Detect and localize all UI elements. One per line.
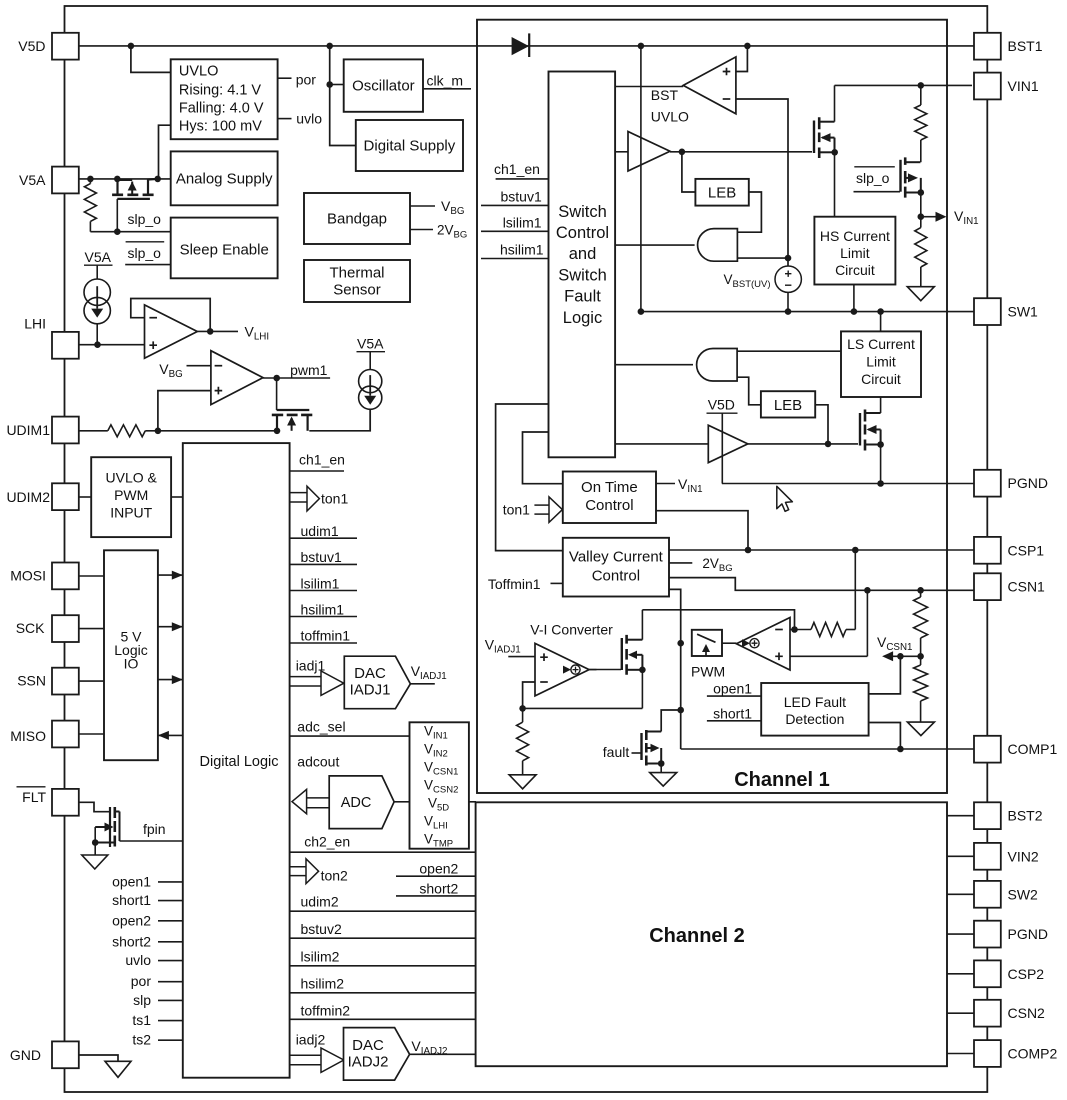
junction CSP1-sense bbox=[852, 547, 859, 554]
svg-text:Sleep Enable: Sleep Enable bbox=[180, 242, 269, 259]
wire 2V_BG tick bbox=[410, 229, 433, 231]
svg-text:Analog Supply: Analog Supply bbox=[176, 171, 273, 188]
wire on-time VIN1 tick bbox=[656, 483, 675, 485]
pin GND bbox=[52, 1041, 79, 1068]
svg-text:Thermal: Thermal bbox=[329, 265, 384, 282]
transistor LS switch M6 bbox=[859, 413, 861, 446]
resistor UDIM1 R1 bbox=[108, 425, 146, 437]
svg-text:LEB: LEB bbox=[708, 185, 736, 202]
pin PGND ch2 bbox=[974, 921, 1001, 948]
transistor V-I M7 bbox=[621, 638, 623, 670]
op-amp PWM comparator U2 bbox=[211, 351, 263, 405]
svg-text:Circuit: Circuit bbox=[835, 262, 875, 278]
wire hsilim2 out bbox=[290, 992, 476, 994]
wire lsilim1 out bbox=[290, 590, 357, 592]
wire short1 status bbox=[158, 900, 183, 902]
svg-text:por: por bbox=[131, 973, 152, 989]
transistor fault M8 bbox=[632, 752, 642, 754]
wire mux to channel bbox=[469, 801, 476, 803]
wire minus feedback bbox=[523, 682, 535, 708]
svg-text:PWM: PWM bbox=[691, 664, 725, 680]
wire bstuv1 switch input bbox=[481, 204, 549, 206]
wire V5D to UVLO bbox=[131, 46, 171, 73]
current source I_UDIM bbox=[369, 352, 371, 370]
svg-text:Digital Logic: Digital Logic bbox=[200, 754, 279, 770]
wire V5D rail bbox=[79, 45, 975, 47]
wire pwm to comparator bbox=[722, 642, 736, 644]
svg-text:ADC: ADC bbox=[341, 795, 372, 811]
wire por status bbox=[158, 981, 183, 983]
svg-text:uvlo: uvlo bbox=[296, 111, 322, 127]
wire uvlo status bbox=[158, 960, 183, 962]
wire open1 status bbox=[158, 881, 183, 883]
pin LHI bbox=[52, 332, 79, 359]
junction LS gate node bbox=[825, 441, 832, 448]
resistor V-I bbox=[522, 708, 524, 722]
svg-text:open1: open1 bbox=[713, 681, 752, 697]
wire hsilim1 switch input bbox=[481, 258, 549, 260]
resistor CSN1 lower bbox=[920, 656, 922, 665]
pin SCK bbox=[52, 615, 79, 642]
svg-text:open2: open2 bbox=[419, 861, 458, 877]
resistor VIN1 upper bbox=[920, 85, 922, 105]
wire channel2 pin stub bbox=[947, 973, 974, 975]
wire switch to on-time bbox=[523, 432, 563, 484]
svg-text:DAC: DAC bbox=[352, 1037, 384, 1054]
svg-text:MOSI: MOSI bbox=[10, 568, 46, 584]
DAC IADJ1 block bbox=[344, 656, 410, 709]
junction V_IN1 tap bbox=[918, 213, 925, 220]
svg-text:LHI: LHI bbox=[24, 316, 46, 332]
svg-text:UVLO: UVLO bbox=[179, 64, 219, 80]
svg-text:SW2: SW2 bbox=[1008, 886, 1039, 902]
svg-text:BST2: BST2 bbox=[1008, 808, 1043, 824]
summing symbol V-I bbox=[589, 669, 596, 671]
junction VIN1 divider bbox=[918, 82, 925, 89]
Switch Control block bbox=[549, 72, 616, 458]
wire SSN input bbox=[77, 680, 104, 682]
svg-text:Oscillator: Oscillator bbox=[352, 78, 415, 95]
wire switch to LS driver bbox=[615, 443, 708, 445]
wire uvlo output bbox=[278, 118, 292, 120]
junction SW1-rail bbox=[638, 308, 645, 315]
svg-text:PWM: PWM bbox=[114, 487, 148, 503]
wire ch1_en out bbox=[290, 470, 344, 472]
svg-text:por: por bbox=[296, 72, 317, 88]
svg-text:bstuv1: bstuv1 bbox=[301, 549, 342, 565]
ground fault bbox=[650, 773, 677, 787]
wire V5D to oscillator and digital supply bbox=[330, 46, 356, 146]
junction valley minus bbox=[791, 626, 798, 633]
Channel 1 block bbox=[477, 20, 947, 793]
junction PGND-LS source bbox=[877, 480, 884, 487]
wire COMP1 rail bbox=[681, 748, 974, 750]
junction V5A-resistor bbox=[87, 176, 94, 183]
wire V-I drain to valley minus bbox=[642, 610, 794, 630]
arrow ton2 out bbox=[290, 866, 306, 868]
pin PGND ch1 bbox=[974, 470, 1001, 497]
ground CSN1 divider bbox=[907, 722, 934, 736]
svg-text:PGND: PGND bbox=[1008, 475, 1048, 491]
wire LED fault sense input bbox=[869, 656, 901, 694]
wire V_IADJ1 to plus bbox=[508, 656, 535, 658]
wire sck to digital logic bbox=[158, 626, 183, 628]
wire open2 out bbox=[396, 875, 476, 877]
wire channel2 pin stub bbox=[947, 893, 974, 895]
svg-text:ch1_en: ch1_en bbox=[299, 452, 345, 468]
svg-text:Switch: Switch bbox=[558, 203, 607, 221]
svg-text:Detection: Detection bbox=[785, 711, 844, 727]
svg-text:ch1_en: ch1_en bbox=[494, 161, 540, 177]
svg-text:bstuv1: bstuv1 bbox=[501, 189, 542, 205]
pin VIN1 bbox=[974, 73, 1001, 100]
svg-text:ton1: ton1 bbox=[321, 491, 348, 507]
svg-text:Limit: Limit bbox=[840, 245, 870, 261]
svg-text:Logic: Logic bbox=[563, 309, 602, 327]
pin COMP1 bbox=[974, 736, 1001, 763]
ground VIN1 divider bbox=[907, 287, 934, 301]
svg-text:Switch: Switch bbox=[558, 266, 607, 284]
svg-text:CSN1: CSN1 bbox=[1008, 579, 1046, 595]
svg-text:VIN2: VIN2 bbox=[1008, 848, 1039, 864]
Channel 2 block bbox=[476, 802, 947, 1066]
wire switch to valley bbox=[496, 404, 563, 551]
wire ch2_en out bbox=[290, 851, 476, 853]
wire CSP1 rail bbox=[669, 549, 974, 551]
wire mosi to digital logic bbox=[158, 574, 183, 576]
arrow iadj1 bus bbox=[290, 676, 321, 678]
svg-text:Digital Supply: Digital Supply bbox=[364, 138, 456, 155]
transistor pass device M1 bbox=[116, 179, 118, 194]
wire GND to ground bbox=[77, 1055, 118, 1061]
wire channel2 pin stub bbox=[947, 815, 974, 817]
current source I_LHI bbox=[96, 265, 98, 279]
Thermal Sensor block bbox=[304, 260, 410, 302]
transistor FLT driver M3 bbox=[109, 807, 111, 847]
svg-text:hsilim1: hsilim1 bbox=[301, 602, 345, 618]
mouse cursor bbox=[777, 486, 793, 511]
Sleep Enable block bbox=[171, 218, 278, 279]
svg-text:toffmin1: toffmin1 bbox=[301, 628, 351, 644]
wire channel2 pin stub bbox=[947, 933, 974, 935]
pin MISO bbox=[52, 721, 79, 748]
pin UDIM1 bbox=[52, 417, 79, 444]
svg-text:udim1: udim1 bbox=[301, 523, 339, 539]
wire lsilim2 out bbox=[290, 965, 476, 967]
svg-text:ton2: ton2 bbox=[321, 868, 348, 884]
svg-text:V-I Converter: V-I Converter bbox=[530, 622, 613, 638]
wire slp status bbox=[158, 999, 183, 1001]
svg-text:IO: IO bbox=[124, 656, 139, 672]
junction HS driver-LEB bbox=[679, 149, 686, 156]
svg-text:CSP2: CSP2 bbox=[1008, 966, 1045, 982]
wire SCK input bbox=[77, 628, 104, 630]
wire short2 status bbox=[158, 941, 183, 943]
wire short1 input bbox=[707, 720, 761, 722]
svg-text:HS Current: HS Current bbox=[820, 228, 890, 244]
wire fpin to digital logic bbox=[120, 840, 183, 842]
svg-text:SW1: SW1 bbox=[1008, 304, 1039, 320]
ground GND pin bbox=[105, 1061, 131, 1077]
svg-text:short1: short1 bbox=[713, 705, 752, 721]
svg-text:clk_m: clk_m bbox=[427, 73, 464, 89]
junction V5A-pass transistor left bbox=[114, 176, 121, 183]
wire bstuv1 out bbox=[290, 563, 357, 565]
wire UDIM1 to current source bbox=[309, 409, 370, 431]
svg-text:GND: GND bbox=[10, 1047, 41, 1063]
svg-text:short2: short2 bbox=[419, 881, 458, 897]
svg-text:LED Fault: LED Fault bbox=[784, 694, 846, 710]
svg-text:DAC: DAC bbox=[354, 665, 386, 682]
svg-text:LS Current: LS Current bbox=[847, 336, 915, 352]
wire pwm1 output bbox=[263, 377, 330, 379]
PWM sample switch bbox=[692, 630, 722, 656]
wire hsilim1 out bbox=[290, 616, 357, 618]
DAC IADJ2 block bbox=[344, 1028, 410, 1081]
wire AND1 lower input bbox=[737, 257, 788, 259]
svg-text:FLT: FLT bbox=[22, 789, 46, 805]
svg-text:Control: Control bbox=[592, 568, 640, 585]
resistor CSN1 upper bbox=[920, 590, 922, 597]
wire CSP tap down bbox=[854, 550, 856, 630]
comparator valley U7 bbox=[736, 618, 790, 671]
pin BST2 bbox=[974, 802, 1001, 829]
svg-text:VLHI: VLHI bbox=[245, 324, 270, 343]
wire MISO input bbox=[77, 733, 104, 735]
wire AND1 output to switch logic bbox=[615, 244, 695, 246]
buffer HS gate driver U4 bbox=[628, 132, 670, 172]
svg-text:lsilim1: lsilim1 bbox=[301, 576, 340, 592]
svg-text:COMP2: COMP2 bbox=[1008, 1046, 1058, 1062]
svg-text:V5D: V5D bbox=[708, 397, 735, 413]
junction UDIM1 comparator tap bbox=[155, 428, 162, 435]
svg-text:V5A: V5A bbox=[19, 172, 46, 188]
LS Current Limit block bbox=[880, 312, 882, 332]
Valley Current Control block bbox=[563, 538, 669, 597]
wire channel2 pin stub bbox=[947, 1053, 974, 1055]
junction VCSN1 node bbox=[897, 653, 904, 660]
svg-text:CSN2: CSN2 bbox=[1008, 1005, 1046, 1021]
wire UDIM1 input bbox=[78, 430, 108, 432]
pin SW2 bbox=[974, 881, 1001, 908]
svg-text:pwm1: pwm1 bbox=[290, 362, 328, 378]
svg-text:SSN: SSN bbox=[17, 673, 46, 689]
wire por output bbox=[278, 77, 292, 79]
wire V-I source feedback bbox=[523, 707, 643, 709]
svg-text:VIADJ1: VIADJ1 bbox=[411, 663, 447, 682]
svg-text:Bandgap: Bandgap bbox=[327, 211, 387, 228]
svg-text:iadj1: iadj1 bbox=[296, 658, 326, 674]
arrow ton1 channel bbox=[534, 504, 549, 506]
wire VIN1 rail bbox=[835, 84, 973, 86]
wire HS limit to SW1 bbox=[853, 285, 855, 312]
wire PGND rail bbox=[722, 483, 974, 485]
wire miso from digital logic bbox=[158, 734, 183, 736]
wire udim2 out bbox=[290, 910, 476, 912]
junction CSN1-divider bbox=[917, 587, 924, 594]
wire short2 out bbox=[396, 895, 476, 897]
wire slp_o node bbox=[90, 231, 170, 233]
junction V5D-oscillator bbox=[326, 43, 333, 50]
wire udim1 out bbox=[290, 537, 357, 539]
arrow adcout bus bbox=[307, 797, 330, 799]
ADC block bbox=[329, 776, 394, 829]
svg-text:ton1: ton1 bbox=[503, 502, 530, 518]
wire LEB1 input bbox=[682, 152, 696, 192]
HS Current Limit block bbox=[814, 217, 895, 285]
junction LHI-source bbox=[94, 341, 101, 348]
wire BST UVLO plus input bbox=[736, 46, 748, 72]
svg-text:IADJ1: IADJ1 bbox=[350, 682, 391, 699]
Digital Supply block bbox=[356, 120, 463, 171]
wire V_BG tick bbox=[410, 205, 435, 207]
junction V5D-channel rail bbox=[638, 43, 645, 50]
svg-text:open2: open2 bbox=[112, 912, 151, 928]
wire MOSI input bbox=[77, 575, 104, 577]
pin MOSI bbox=[52, 563, 79, 590]
ground V-I bbox=[509, 775, 536, 789]
junction SW1-VBST bbox=[785, 308, 792, 315]
junction chain-PWM bbox=[677, 640, 684, 647]
svg-text:and: and bbox=[569, 245, 597, 263]
svg-text:slp_o: slp_o bbox=[128, 211, 162, 227]
svg-text:lsilim2: lsilim2 bbox=[301, 949, 340, 965]
wire channel2 pin stub bbox=[947, 855, 974, 857]
svg-text:UDIM2: UDIM2 bbox=[6, 489, 50, 505]
transistor slp_o switch M5 bbox=[854, 191, 901, 193]
svg-text:IADJ2: IADJ2 bbox=[348, 1054, 389, 1071]
svg-text:Channel 2: Channel 2 bbox=[649, 925, 745, 947]
transistor HS switch M4 bbox=[813, 121, 815, 154]
svg-text:UVLO &: UVLO & bbox=[106, 470, 158, 486]
LEB block 2 bbox=[761, 391, 815, 417]
junction CSN1-plus bbox=[864, 587, 871, 594]
ground FLT bbox=[82, 855, 108, 869]
junction divider mid bbox=[917, 653, 924, 660]
svg-text:Channel 1: Channel 1 bbox=[734, 769, 830, 791]
wire on-time output to CSP1 bbox=[656, 511, 748, 550]
svg-text:hsilim1: hsilim1 bbox=[500, 242, 544, 258]
junction V5D-UVLO bbox=[128, 43, 135, 50]
svg-text:VIN1: VIN1 bbox=[954, 208, 979, 227]
resistor CSP sense bbox=[790, 629, 811, 631]
svg-text:Hys: 100 mV: Hys: 100 mV bbox=[179, 119, 262, 135]
wire LEB1 to AND1 bbox=[737, 192, 761, 232]
wire LS driver output bbox=[748, 443, 858, 445]
svg-text:UVLO: UVLO bbox=[651, 109, 689, 125]
pin CSP1 bbox=[974, 537, 1001, 564]
wire ch1_en switch input bbox=[496, 178, 549, 180]
svg-text:MISO: MISO bbox=[10, 728, 46, 744]
wire UVLO PWM to digital logic bbox=[171, 496, 183, 498]
wire ts1 status bbox=[158, 1020, 183, 1022]
svg-text:slp_o: slp_o bbox=[856, 170, 890, 186]
svg-text:VBG: VBG bbox=[441, 198, 465, 217]
svg-text:COMP1: COMP1 bbox=[1008, 741, 1058, 757]
svg-text:Sensor: Sensor bbox=[333, 282, 381, 299]
junction V5D-BSTUVLO plus bbox=[744, 43, 751, 50]
wire valley to pwm chain bbox=[669, 589, 681, 749]
buffer LS gate driver U5 bbox=[708, 425, 748, 462]
svg-text:lsilim1: lsilim1 bbox=[503, 215, 542, 231]
junction pwm1 bbox=[273, 375, 280, 382]
svg-text:slp_o: slp_o bbox=[128, 245, 162, 261]
wire adc_sel bbox=[290, 735, 410, 737]
arrow V_CSN1 tap bbox=[882, 651, 893, 661]
junction V_LHI feedback bbox=[207, 328, 214, 335]
svg-text:iadj2: iadj2 bbox=[296, 1032, 326, 1048]
junction V5A-pass transistor right bbox=[154, 176, 161, 183]
svg-text:open1: open1 bbox=[112, 873, 151, 889]
svg-text:ts2: ts2 bbox=[132, 1032, 151, 1048]
svg-text:ch2_en: ch2_en bbox=[304, 834, 350, 850]
svg-text:CSP1: CSP1 bbox=[1008, 542, 1045, 558]
Bandgap block bbox=[304, 193, 410, 244]
svg-text:Control: Control bbox=[585, 497, 633, 514]
wire AND2 lower input from LEB2 bbox=[737, 377, 761, 405]
wire channel2 pin stub bbox=[947, 1012, 974, 1014]
svg-text:Control: Control bbox=[556, 224, 609, 242]
arrow ton1 out bbox=[290, 492, 307, 494]
wire V5D through driver to PGND bbox=[721, 413, 723, 483]
junction chain-fault bbox=[677, 707, 684, 714]
svg-text:SCK: SCK bbox=[16, 620, 45, 636]
pin CSP2 bbox=[974, 960, 1001, 987]
wire UDIM2 input bbox=[77, 496, 91, 498]
Analog Supply block bbox=[171, 151, 278, 205]
On Time Control block bbox=[563, 472, 656, 524]
LEB block 1 bbox=[695, 179, 748, 206]
op-amp LHI comparator U1 bbox=[145, 305, 198, 358]
wire V_BG to comparator bbox=[187, 365, 211, 367]
svg-text:uvlo: uvlo bbox=[125, 952, 151, 968]
arrow iadj2 bus bbox=[290, 1054, 321, 1056]
pin VIN2 bbox=[974, 843, 1001, 870]
LED Fault Detection block bbox=[761, 683, 868, 736]
pin CSN2 bbox=[974, 1000, 1001, 1027]
svg-text:V5A: V5A bbox=[85, 249, 112, 265]
svg-text:bstuv2: bstuv2 bbox=[301, 921, 342, 937]
junction CSP1-ontime bbox=[745, 547, 752, 554]
wire Toffmin1 tick bbox=[551, 582, 563, 584]
comparator BST UVLO U3 bbox=[683, 57, 736, 114]
arrow V_IN1 tap bbox=[921, 216, 936, 218]
wire lsilim1 switch input bbox=[481, 230, 549, 232]
diode D1 bbox=[512, 37, 529, 55]
Digital Logic block bbox=[183, 443, 290, 1078]
svg-text:short1: short1 bbox=[112, 892, 151, 908]
wire UVLO sense to V5A bbox=[159, 125, 171, 179]
op-amp V-I converter U6 bbox=[535, 643, 589, 696]
svg-text:fpin: fpin bbox=[143, 821, 166, 837]
wire CSN1 rail bbox=[669, 578, 974, 591]
wire switch to BST UVLO bbox=[615, 86, 683, 88]
UVLO block bbox=[171, 59, 278, 139]
junction COMP1-LED bbox=[897, 746, 904, 753]
junction V-I feedback bbox=[519, 705, 526, 712]
svg-text:UDIM1: UDIM1 bbox=[6, 422, 50, 438]
svg-text:adc_sel: adc_sel bbox=[297, 719, 345, 735]
pin V5A bbox=[52, 167, 79, 194]
summing symbol valley bbox=[750, 639, 759, 648]
wire FLT to gate bbox=[78, 802, 109, 811]
wire LHI input bbox=[79, 344, 146, 346]
svg-text:V5D: V5D bbox=[18, 38, 45, 54]
pin FLT bbox=[52, 789, 79, 816]
AND gate A1 bbox=[698, 229, 738, 262]
wire V_LHI output bbox=[197, 330, 238, 332]
wire UDIM1 to mosfet bbox=[145, 430, 276, 432]
